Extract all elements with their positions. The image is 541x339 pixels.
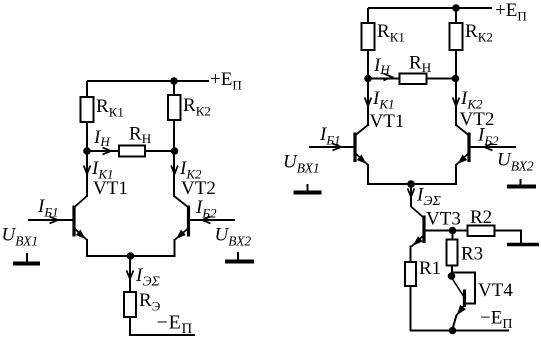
label Re (left circuit) (139, 290, 161, 314)
label Ik1 (right circuit) (372, 88, 394, 112)
label R3 (right circuit) (461, 244, 483, 265)
transistor VT4 collector lead (right circuit) (452, 278, 465, 298)
label Rn (right circuit) (409, 53, 431, 76)
transistor VT1 collector lead (right circuit) (356, 125, 369, 135)
arrow Ik1 current (right circuit) (365, 98, 372, 107)
label Uvx1 (left circuit) (2, 225, 39, 249)
node collector VT2 (right circuit) (452, 75, 460, 83)
node VT4 base-collector (right circuit) (448, 272, 456, 280)
wire collector VT1 (left circuit) (86, 151, 88, 197)
transistor VT2 base bar (right circuit) (467, 133, 470, 163)
wire R2 to terminal (right circuit) (495, 231, 522, 244)
label Ib2 (right circuit) (477, 125, 499, 149)
wire emitter VT1 down (right circuit) (367, 164, 369, 185)
label R2 (right circuit) (470, 207, 492, 228)
resistor RK1 (left circuit) (81, 97, 94, 122)
wire to VT3 collector (right circuit) (410, 184, 412, 207)
label In (right circuit) (373, 55, 390, 77)
label RK2 (right circuit) (465, 21, 493, 45)
svg-text:VT1: VT1 (370, 111, 405, 132)
resistor Rn (left circuit) (119, 146, 145, 157)
resistor R2 (right circuit) (468, 226, 495, 237)
label Uvx2 (right circuit) (497, 150, 534, 174)
arrow Ib2 current (left circuit) (202, 217, 211, 224)
transistor VT3 emitter lead (right circuit) (412, 236, 424, 247)
wire node to R2 (right circuit) (453, 230, 468, 232)
terminal Uvx1 (left circuit) (13, 253, 40, 264)
resistor RK2 (left circuit) (168, 95, 181, 120)
terminal Uvx1 (right circuit) (294, 184, 322, 193)
label Uvx2 (left circuit) (215, 225, 252, 249)
wire Re to -Ep rail (left circuit) (130, 317, 195, 335)
svg-text:VT4: VT4 (478, 280, 513, 301)
label VT1 (left circuit) (93, 178, 128, 199)
svg-text:R1: R1 (419, 258, 441, 279)
node VT3 base / R2 / R3 (right circuit) (449, 227, 457, 235)
arrow Ik1 current (left circuit) (84, 166, 91, 175)
junction on +Ep rail (right circuit) (452, 4, 460, 12)
transistor VT4 emitter lead (right circuit) (456, 305, 466, 316)
transistor VT4 base bar (right circuit) (463, 290, 466, 308)
wire +Ep rail (left circuit) (87, 80, 209, 82)
arrow Ik2 current (left circuit) (171, 166, 178, 175)
transistor VT2 emitter lead (right circuit) (456, 154, 469, 166)
svg-text:VT2: VT2 (460, 109, 495, 130)
wire VT3 emitter to R1 (right circuit) (410, 246, 412, 264)
wire collector VT1 (right circuit) (367, 79, 369, 127)
label RK1 (right circuit) (377, 21, 405, 45)
transistor VT1 emitter lead (right circuit) (356, 154, 369, 166)
label VT4 (right circuit) (478, 280, 513, 301)
transistor VT3 base bar (right circuit) (422, 216, 425, 244)
transistor VT1 base bar (left circuit) (72, 206, 75, 237)
transistor VT1 base bar (right circuit) (353, 133, 356, 163)
terminal Uvx2 (left circuit) (225, 252, 254, 262)
arrow Ie current (left circuit) (127, 271, 134, 280)
resistor R3 (right circuit) (447, 240, 458, 266)
label +Ep (right circuit) (495, 0, 527, 24)
transistor VT1 collector lead (left circuit) (75, 196, 88, 207)
wire Rn to node (left circuit) (145, 150, 174, 152)
wire base input VT2 (left circuit) (190, 219, 236, 221)
node collector VT1 (right circuit) (364, 75, 372, 83)
wire RK1 bottom lead (right circuit) (367, 50, 369, 79)
wire emitter rail (left circuit) (87, 255, 175, 257)
label VT3 (right circuit) (426, 209, 461, 230)
wire RK1 top lead (right circuit) (367, 8, 369, 24)
svg-text:R2: R2 (470, 207, 492, 228)
wire Rn to node (right circuit) (427, 78, 456, 80)
wire RK2 top lead (left circuit) (173, 81, 175, 96)
wire R1 to -Ep rail (right circuit) (410, 286, 412, 331)
label Uvx1 (right circuit) (283, 152, 320, 176)
wire emitter VT1 down (left circuit) (86, 239, 88, 257)
label RK2 (left circuit) (183, 95, 211, 119)
arrow In current (right circuit) (384, 74, 393, 81)
junction on -Ep rail (right circuit) (449, 327, 457, 335)
terminal Uvx2 (right circuit) (507, 179, 536, 187)
label VT2 (left circuit) (181, 178, 216, 199)
transistor VT2 emitter lead (left circuit) (175, 229, 189, 241)
resistor Re (left circuit) (124, 292, 136, 317)
wire collector VT2 (right circuit) (455, 79, 457, 127)
junction on +Ep rail (left circuit) (170, 77, 178, 85)
resistor RK2 (right circuit) (450, 23, 463, 50)
arrow Ik2 current (right circuit) (453, 98, 460, 107)
wire base input VT1 (left circuit) (28, 219, 73, 221)
transistor VT2 collector lead (left circuit) (174, 196, 188, 207)
label Ik1 (left circuit) (91, 158, 113, 182)
arrow Ie current (right circuit) (408, 189, 415, 198)
wire VT4 base tie loop (right circuit) (452, 273, 476, 304)
wire R3 to VT4 node (right circuit) (451, 266, 453, 277)
wire RK2 bottom lead (left circuit) (173, 120, 175, 152)
svg-text:VT2: VT2 (181, 178, 216, 199)
wire to Re (left circuit) (129, 256, 131, 293)
wire base input VT2 (right circuit) (470, 146, 516, 148)
transistor VT2 collector lead (right circuit) (456, 125, 469, 135)
wire node to R3 (right circuit) (452, 231, 454, 241)
label +Ep (left circuit) (210, 69, 242, 93)
wire emitter rail (right circuit) (368, 183, 456, 185)
node collector VT2 (left circuit) (171, 147, 179, 155)
wire RK2 bottom lead (right circuit) (455, 50, 457, 79)
junction emitters (right circuit) (407, 180, 415, 188)
label VT1 (right circuit) (370, 111, 405, 132)
wire VT4 emitter to rail (right circuit) (453, 315, 457, 329)
transistor VT2 base bar (left circuit) (187, 206, 190, 237)
wire -Ep rail (right circuit) (410, 330, 509, 332)
svg-text:VT1: VT1 (93, 178, 128, 199)
wire RK1 bottom lead (left circuit) (86, 122, 88, 152)
arrow Ib1 current (left circuit) (50, 217, 59, 224)
arrow Ib1 current (right circuit) (333, 144, 342, 151)
transistor VT1 emitter lead (left circuit) (75, 229, 88, 241)
svg-text:R3: R3 (461, 244, 483, 265)
wire node to Rn (right circuit) (368, 78, 400, 80)
label In (left circuit) (93, 127, 110, 149)
resistor Rn (right circuit) (400, 74, 427, 85)
label Ie-sum (left circuit) (135, 265, 160, 290)
svg-text:VT3: VT3 (426, 209, 461, 230)
label Ib2 (left circuit) (195, 197, 217, 221)
wire base input VT1 (right circuit) (309, 146, 354, 148)
node collector VT1 (left circuit) (83, 147, 91, 155)
arrow Ib2 current (right circuit) (484, 144, 493, 151)
wire VT3 base to node (right circuit) (425, 230, 453, 232)
label R1 (right circuit) (419, 258, 441, 279)
label -Ep (left circuit) (157, 312, 193, 338)
label Ik2 (left circuit) (179, 158, 202, 182)
resistor R1 (right circuit) (405, 262, 416, 286)
wire emitter VT2 down (left circuit) (174, 239, 176, 257)
wire node to Rn (left circuit) (87, 150, 119, 152)
label -Ep (right circuit) (480, 308, 512, 333)
label Ib1 (right circuit) (319, 124, 341, 148)
wire RK1 top lead (left circuit) (86, 81, 88, 98)
arrow In current (left circuit) (103, 148, 112, 155)
label Ie-sum (right circuit) (416, 185, 441, 210)
transistor VT3 collector lead (right circuit) (411, 207, 424, 218)
wire RK2 top lead (right circuit) (455, 8, 457, 24)
terminal ground after R2 (right circuit) (507, 243, 539, 247)
label RK1 (left circuit) (96, 96, 124, 120)
junction emitters (left circuit) (127, 252, 135, 260)
wire collector VT2 (left circuit) (173, 151, 175, 197)
resistor RK1 (right circuit) (362, 23, 375, 50)
label Ik2 (right circuit) (460, 88, 483, 112)
label Ib1 (left circuit) (37, 196, 59, 220)
label Rn (left circuit) (129, 124, 151, 147)
wire +Ep rail (right circuit) (368, 7, 492, 9)
label VT2 (right circuit) (460, 109, 495, 130)
wire emitter VT2 down (right circuit) (455, 164, 457, 185)
